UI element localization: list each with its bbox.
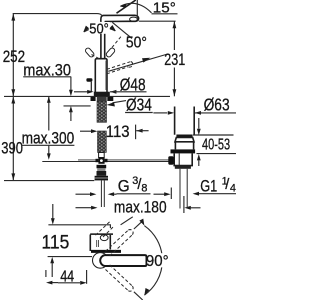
label 50deg no.1 — [89, 22, 110, 34]
escutcheon base plate — [94, 92, 110, 97]
supply fitting — [97, 165, 107, 169]
threaded shank — [97, 101, 107, 122]
cartridge ellipse — [100, 235, 108, 241]
spout — [101, 15, 139, 21]
waste plug column — [175, 107, 195, 135]
waste rim flange — [171, 149, 196, 153]
swivel guide line — [108, 55, 166, 72]
extension line spout outlet — [139, 20, 176, 22]
svg-text:max.300: max.300 — [22, 128, 75, 147]
dashed swivel spout upper — [110, 235, 133, 256]
svg-text:231: 231 — [164, 50, 185, 69]
rod junction block — [98, 157, 104, 163]
svg-text:Ø34: Ø34 — [126, 94, 152, 114]
spout bar bottom view — [100, 255, 146, 266]
pop-up rod horizontal link — [42, 161, 168, 163]
svg-text:50°: 50° — [89, 20, 109, 37]
dashed swivel spout side view — [107, 62, 131, 70]
aerator axis vertical reference — [136, 0, 138, 20]
tick to arc lower — [134, 292, 143, 300]
hose end connector — [99, 153, 105, 158]
svg-text:max.180: max.180 — [114, 197, 167, 216]
dashes lever right leader — [112, 37, 121, 48]
tick to arc upper — [134, 221, 143, 229]
dimension line 231 — [173, 21, 175, 50]
svg-text:40-53: 40-53 — [202, 136, 230, 153]
supply tail pipe — [101, 180, 104, 207]
arc 15 deg — [121, 3, 152, 13]
waste plug flare — [175, 138, 194, 142]
arc 50deg no.1 — [84, 27, 115, 32]
lever tilted 15 deg — [117, 0, 136, 13]
waste bottom collar — [175, 166, 191, 169]
fitting nut — [95, 176, 108, 181]
pop-up rod knob — [86, 78, 92, 82]
pivot circle — [93, 253, 109, 269]
svg-text:90°: 90° — [146, 253, 169, 270]
body box bottom bold edge — [91, 250, 121, 253]
bottom view body box — [89, 235, 91, 252]
svg-text:G: G — [118, 176, 130, 195]
svg-text:G1: G1 — [200, 176, 217, 195]
extension line top (lever top level) — [13, 14, 102, 16]
svg-text:Ø63: Ø63 — [204, 94, 230, 114]
mounting hardware below deck — [91, 97, 96, 101]
dimension max.180 — [76, 207, 92, 209]
waste lower body — [174, 153, 192, 165]
thread label G3/8 arrows — [76, 193, 91, 195]
extension line hose end bottom — [4, 180, 94, 182]
svg-text:50°: 50° — [126, 34, 147, 51]
bottom view extension top — [48, 225, 110, 228]
dashes over box — [96, 222, 110, 236]
waste upper body — [175, 142, 193, 150]
waste plug lip — [176, 135, 192, 138]
waste rod knob — [168, 156, 173, 165]
lever cap rotated left — [84, 47, 94, 58]
svg-text:390: 390 — [1, 138, 23, 157]
dimension diameter 48 — [74, 91, 89, 93]
flexible hose — [98, 131, 107, 152]
dimension line 252 — [12, 14, 14, 97]
dimension 113 — [80, 130, 93, 132]
aerator — [130, 17, 138, 21]
dimension line 390 — [12, 97, 14, 181]
dimension 115 bottom arrow — [50, 257, 54, 263]
svg-text:8: 8 — [141, 182, 147, 194]
lever cap rotated right — [105, 47, 115, 58]
deck top line — [4, 95, 170, 97]
svg-text:252: 252 — [3, 47, 25, 66]
dimension 115 top arrow — [52, 204, 54, 219]
dashes lever left — [92, 55, 101, 60]
dashed swivel spout lower — [110, 265, 133, 286]
svg-text:115: 115 — [42, 232, 70, 253]
svg-text:4: 4 — [230, 182, 236, 194]
leader max.30 upper arrow — [70, 77, 72, 90]
thread label G1 1/4 — [170, 188, 172, 200]
bottom view extension lower — [48, 256, 92, 258]
mixer body — [95, 59, 107, 97]
dimension 44 — [45, 270, 47, 277]
max.30 lower arrow — [69, 106, 73, 112]
svg-text:113: 113 — [106, 122, 130, 141]
waste tail pipe — [180, 169, 187, 209]
label 90deg — [147, 253, 170, 267]
deck bottom line segment — [64, 105, 91, 107]
swivel arc 90deg — [144, 226, 162, 295]
dimension diameter 63 — [153, 112, 167, 114]
neck — [101, 22, 105, 59]
dimension 40-53 — [198, 118, 200, 129]
